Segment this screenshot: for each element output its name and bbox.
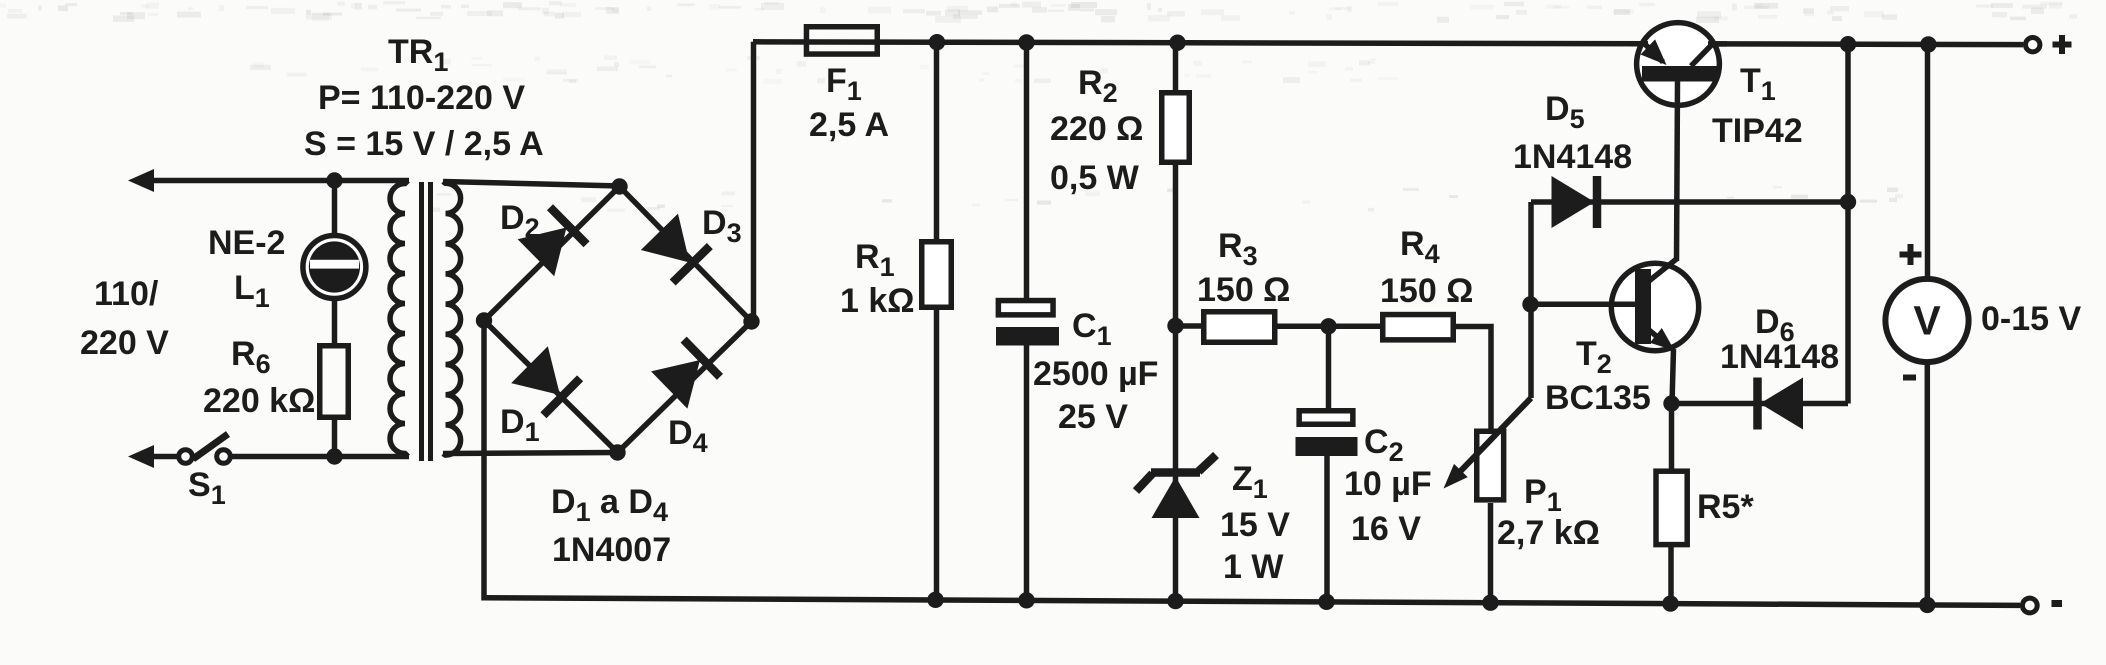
wire bridge plus up to top bus [751,42,757,322]
AC input arrow bottom [128,445,154,468]
resistor R6 [320,346,349,418]
wire T2 base [1531,302,1638,308]
diode D5 [1552,176,1598,228]
wire AC input bottom to switch [140,454,177,460]
junction top bus R1 [929,34,945,50]
wire R5 top [1669,404,1675,471]
svg-text:16 V: 16 V [1351,510,1421,548]
transformer TR1 core [419,182,424,461]
resistor R1 [922,242,952,308]
diode D4 [651,340,720,409]
svg-text:R5*: R5* [1697,488,1754,526]
svg-text:P= 110-220 V: P= 110-220 V [318,79,525,117]
junction bottom bus C1 [1018,592,1034,608]
wire R3 right [1277,324,1330,330]
wire output rail vertical [1845,44,1851,403]
svg-text:1N4148: 1N4148 [1513,138,1632,176]
AC input arrow top [128,169,154,192]
junction T2 emitter node [1663,395,1679,411]
wire R6 to bottom AC line [332,420,338,457]
wire switch to transformer primary [232,454,410,460]
transistor T2 (BC135) body [1611,263,1698,350]
junction bottom bus R5 [1662,595,1678,611]
wire T1 base to T2 collector [1677,81,1678,261]
transformer TR1 secondary winding [443,182,461,456]
svg-text:0,5 W: 0,5 W [1050,159,1140,197]
junction bottom bus voltmeter [1919,597,1935,613]
wire top bus [753,42,2023,45]
svg-text:220 V: 220 V [80,324,169,362]
transistor T1 (TIP42) body [1637,23,1720,106]
transistor T2 internals [1613,259,1680,358]
junction D5 cathode rail [1840,194,1856,210]
diode D3 [641,214,710,283]
bridge arm wire L-T [484,187,620,321]
junction node R6-bottom [326,448,342,464]
output minus mark [2052,600,2063,607]
svg-text:25 V: 25 V [1058,398,1128,436]
wire bridge minus to bottom bus [481,321,487,601]
svg-text:15 V: 15 V [1220,506,1290,544]
resistor R4 [1383,315,1454,340]
diode D1 [511,346,580,415]
svg-text:S = 15 V / 2,5 A: S = 15 V / 2,5 A [304,125,544,163]
wire C2 top [1326,326,1332,410]
svg-text:NE-2: NE-2 [208,224,285,262]
capacitor C1 [998,301,1053,315]
svg-text:0-15 V: 0-15 V [1981,300,2081,338]
junction R3-R4-C2 [1320,318,1336,334]
junction top bus output rail [1840,36,1856,52]
svg-text:150 Ω: 150 Ω [1197,271,1290,309]
wire R3 left [1176,323,1204,329]
junction bridge right corner [743,313,759,329]
wire voltmeter bottom [1925,365,1931,605]
svg-text:150 Ω: 150 Ω [1380,272,1473,310]
junction bottom bus Z1 [1167,593,1183,609]
junction bridge bottom corner [609,444,625,460]
bridge arm wire T-R [620,187,752,322]
junction bridge left corner [476,312,492,328]
wire C1 top [1024,42,1030,300]
potentiometer P1 wiper arrow [1437,464,1468,495]
wire T2 emitter down [1672,349,1674,404]
wire D6 horizontal [1672,401,1849,407]
output plus mark [2053,35,2072,54]
wire secondary top to bridge [443,182,620,187]
resistor R3 [1204,312,1275,343]
svg-text:D1 a D4: D1 a D4 [551,483,668,527]
junction top bus C1 [1018,34,1034,50]
junction R2-R3-Z1 [1167,318,1183,334]
output terminal minus [2022,598,2037,613]
svg-text:10 µF: 10 µF [1344,465,1432,503]
wire secondary bottom to bridge [443,453,618,454]
switch S1 [179,434,231,463]
svg-text:1N4148: 1N4148 [1720,338,1839,376]
wire R1 branch [934,42,940,600]
zener diode Z1 [1136,455,1216,518]
svg-text:BC135: BC135 [1545,379,1651,417]
svg-text:TIP42: TIP42 [1712,112,1803,150]
potentiometer P1 wiper arm [1452,398,1531,480]
wire T2 base riser (D5 anode to wiper) [1528,202,1534,398]
wire C2 bottom [1324,456,1330,602]
resistor R2 [1162,93,1190,163]
svg-text:110/: 110/ [94,275,159,313]
svg-text:1 W: 1 W [1223,548,1284,586]
transistor T1 internals [1630,39,1727,81]
bridge arm wire B-R [618,322,752,453]
junction top bus voltmeter [1920,36,1936,52]
capacitor C2 [1299,411,1353,425]
wire bottom bus [484,598,2020,606]
potentiometer P1 body [1477,431,1504,500]
scan noise band [0,1,2077,212]
svg-text:1 kΩ: 1 kΩ [840,282,915,320]
svg-text:2500 µF: 2500 µF [1033,355,1158,393]
transformer TR1 primary winding [390,181,408,457]
voltmeter plus mark [1900,244,1922,265]
junction node lamp-top [326,172,342,188]
wire D5 horizontal [1531,199,1848,205]
wire R4 right to P1 [1456,327,1491,431]
junction top bus R2 [1169,35,1185,51]
neon lamp L1 (NE-2) [303,236,366,299]
voltmeter V [1885,279,1968,362]
wire lamp branch top [332,181,338,235]
junction bottom bus C2 [1318,594,1334,610]
svg-text:2,5 A: 2,5 A [809,106,889,144]
output terminal plus [2026,38,2040,52]
svg-text:220 Ω: 220 Ω [1050,110,1143,148]
wire lamp to R6 [332,300,338,344]
wire AC input top line [140,178,409,184]
wire voltmeter top [1925,44,1931,277]
svg-text:220 kΩ: 220 kΩ [203,382,315,420]
wire C1 bottom [1024,345,1030,600]
junction bottom bus R1 [927,592,943,608]
svg-text:2,7 kΩ: 2,7 kΩ [1497,514,1600,552]
svg-text:V: V [1913,298,1941,344]
wire R4 left [1329,324,1383,330]
junction bottom bus P1 [1482,595,1498,611]
wire R2 to Z1 node [1173,165,1179,326]
junction T2 base node [1522,296,1538,312]
junction bridge top corner [611,178,627,194]
diode D6 [1758,378,1804,430]
wire P1 bottom [1488,503,1494,603]
voltmeter minus mark [1903,375,1916,381]
bridge arm wire L-B [484,321,618,453]
svg-text:1N4007: 1N4007 [552,531,671,569]
wire R5 bottom [1668,547,1674,604]
wire Z1 branch [1173,326,1179,601]
fuse F1 [806,27,877,54]
diode D2 [518,207,587,276]
wire R2 top [1173,43,1179,92]
resistor R5 [1656,471,1687,544]
